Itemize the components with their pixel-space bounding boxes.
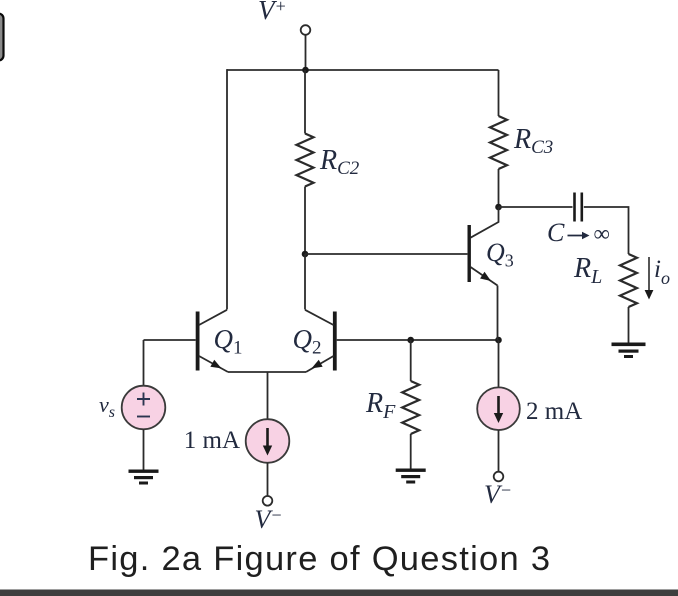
wire RC2 top xyxy=(304,70,306,134)
wire collector node to capacitor xyxy=(499,206,573,208)
terminal V- (right) xyxy=(494,472,504,482)
svg-text:1 mA: 1 mA xyxy=(184,427,240,454)
junction dot Q3 emitter node xyxy=(495,337,502,344)
wire emitters to 1mA source xyxy=(267,372,269,419)
ground below vs xyxy=(129,470,159,485)
resistor RC2 xyxy=(297,134,314,187)
current source 1 mA xyxy=(246,419,290,463)
wire node to Q3 base xyxy=(305,253,467,255)
svg-text:∞: ∞ xyxy=(594,221,610,246)
wire RF top xyxy=(410,340,412,381)
resistor RF xyxy=(402,381,419,434)
svg-text:RL: RL xyxy=(573,253,602,288)
junction dot Q3 collector node xyxy=(495,204,502,211)
svg-text:vs: vs xyxy=(99,392,115,421)
wire top rail xyxy=(227,69,499,71)
wire left feedback vertical (rail to Q1 collector) xyxy=(226,69,228,309)
ground below RF xyxy=(396,469,426,484)
svg-text:Q2: Q2 xyxy=(293,324,322,359)
bottom bar xyxy=(0,590,678,596)
wire RC3 bottom to collector node xyxy=(498,169,500,207)
junction dot RF node xyxy=(407,337,414,344)
UI tab fragment at left edge xyxy=(0,14,4,61)
ground below RL xyxy=(612,343,646,359)
svg-text:2 mA: 2 mA xyxy=(526,398,582,425)
svg-text:C: C xyxy=(547,218,565,247)
wire RL to ground xyxy=(628,307,630,344)
resistor RC3 xyxy=(490,116,507,169)
wire Q3 emitter down xyxy=(497,286,499,341)
svg-text:Q1: Q1 xyxy=(214,324,243,359)
svg-text:RF: RF xyxy=(365,388,396,423)
source vs xyxy=(122,386,166,430)
wire V+ drop xyxy=(305,35,307,70)
wire 2mA to V- terminal xyxy=(498,430,500,472)
V+ terminal xyxy=(301,25,311,35)
wire RC2 bottom to node xyxy=(304,187,306,255)
svg-text:V−: V− xyxy=(484,480,512,509)
svg-text:Q3: Q3 xyxy=(486,238,514,271)
wire Q2 base / feedback node xyxy=(337,339,499,341)
wire capacitor to RL corner xyxy=(584,207,629,254)
wire vs to base xyxy=(143,340,145,386)
svg-text:V+: V+ xyxy=(258,0,287,25)
wire joined emitters xyxy=(228,371,306,373)
transistor Q3 xyxy=(468,207,499,286)
wire vs to ground xyxy=(143,429,145,470)
svg-text:V−: V− xyxy=(255,505,283,534)
svg-text:RC3: RC3 xyxy=(513,124,553,158)
svg-text:io: io xyxy=(654,256,670,288)
wire RF bottom xyxy=(410,434,412,469)
wire node down to Q2 collector xyxy=(304,254,306,310)
capacitor C xyxy=(575,193,582,222)
junction dot V+ rail xyxy=(302,67,309,74)
wire Q1 base xyxy=(144,339,196,341)
terminal V- (left) xyxy=(263,496,273,506)
svg-text:RC2: RC2 xyxy=(319,145,360,179)
current source 2 mA xyxy=(477,387,520,430)
wire node to 2mA source xyxy=(498,340,500,388)
transistor Q2 xyxy=(305,310,337,372)
transistor Q1 xyxy=(196,310,228,372)
junction dot Q3 base node xyxy=(302,251,309,258)
resistor RL xyxy=(620,254,637,307)
arrow io xyxy=(645,257,654,300)
label C -> infinity xyxy=(547,218,610,247)
wire 1mA to V- terminal xyxy=(267,463,269,496)
svg-text:Fig. 2a Figure of Question 3: Fig. 2a Figure of Question 3 xyxy=(88,540,550,578)
resistor RC3 top wire xyxy=(498,70,500,116)
